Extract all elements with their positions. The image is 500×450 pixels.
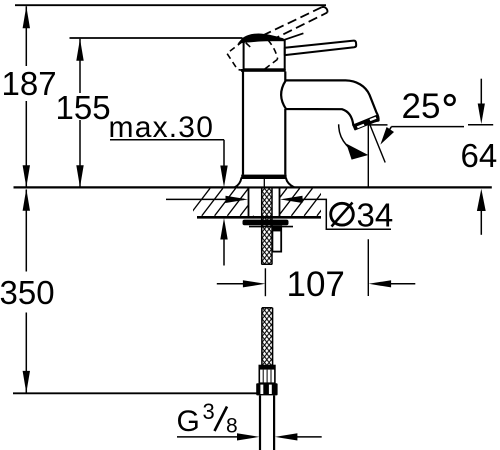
svg-text:3: 3 bbox=[203, 399, 215, 424]
dim 350 arrow down bbox=[23, 371, 30, 393]
dim 155 line bbox=[79, 39, 81, 187]
svg-text:25: 25 bbox=[402, 87, 441, 126]
top reference line bbox=[15, 4, 326, 6]
25 deg short line at tip bbox=[369, 124, 388, 126]
hose nut bbox=[256, 383, 277, 395]
dim 64 upper arrow bbox=[480, 79, 482, 104]
mounting washer bbox=[243, 220, 289, 226]
max.30 arrow up below counter bbox=[220, 218, 227, 240]
lever solid bbox=[285, 41, 356, 56]
handle dashed left flap bbox=[227, 41, 245, 70]
svg-text:107: 107 bbox=[287, 265, 345, 304]
counter hatching bbox=[189, 188, 338, 216]
spout bbox=[281, 80, 378, 125]
base seam centerline bbox=[263, 178, 265, 187]
lever cap blob bbox=[238, 34, 284, 44]
lever raised-position edge stub bbox=[283, 33, 303, 40]
25 deg underline bbox=[391, 126, 464, 128]
lever dashed raised position bbox=[262, 7, 327, 40]
25 deg leader arrow bbox=[385, 127, 392, 138]
dim 107 left arrow bbox=[217, 283, 244, 285]
rotation arc arrowhead bbox=[346, 144, 368, 160]
aerator bbox=[353, 116, 379, 130]
25 deg angled line bbox=[369, 122, 385, 163]
base flare bbox=[235, 178, 295, 187]
braided hose lower bbox=[262, 308, 273, 366]
svg-text:64: 64 bbox=[461, 137, 498, 174]
G3/8 leader left arrow bbox=[177, 436, 240, 438]
dim Ø34 left arrow bbox=[166, 198, 244, 200]
G3/8 right arrow bbox=[275, 433, 298, 440]
max.30 arrow down bbox=[220, 166, 227, 188]
base bar bbox=[241, 175, 286, 178]
svg-text:G: G bbox=[177, 405, 200, 438]
svg-text:350: 350 bbox=[0, 274, 55, 311]
dim 187 arrow up bbox=[23, 6, 30, 28]
svg-text:34: 34 bbox=[357, 196, 394, 233]
dim 187 line bbox=[25, 6, 27, 186]
25 deg vertical extension line bbox=[367, 125, 369, 296]
counter bottom line bbox=[197, 216, 321, 219]
svg-text:155: 155 bbox=[56, 89, 111, 126]
hose collar bbox=[259, 366, 275, 384]
max.30 leader line bbox=[110, 140, 224, 170]
faucet body column bbox=[243, 72, 285, 175]
braided hose upper bbox=[261, 188, 272, 265]
dim 155 arrow up bbox=[76, 39, 83, 61]
tail pipe bbox=[260, 395, 274, 450]
handle inner dashed lines bbox=[246, 40, 278, 70]
dim 187 arrow down bbox=[23, 165, 30, 187]
dim 64 lower arrow bbox=[477, 189, 486, 211]
dim Ø34 right arrow bbox=[280, 196, 303, 203]
dim 155 arrow down bbox=[76, 165, 83, 187]
ref line 155 level bbox=[70, 37, 243, 39]
dim 107 centerline bbox=[264, 268, 266, 296]
svg-text:8: 8 bbox=[226, 415, 238, 438]
svg-text:187: 187 bbox=[2, 65, 57, 102]
dim 107 right arrow bbox=[369, 280, 392, 287]
dim 350 line bbox=[25, 190, 27, 393]
handle body bbox=[244, 40, 285, 69]
bottom reference line bbox=[13, 392, 257, 394]
rotation arc bbox=[339, 124, 367, 155]
label Ø34 bbox=[331, 203, 354, 225]
counter surface line bbox=[14, 186, 492, 188]
shank hole through counter bbox=[248, 189, 280, 216]
dim 350 arrow up bbox=[23, 189, 30, 211]
handle bottom bar bbox=[241, 69, 286, 72]
hose nipple fitting bbox=[272, 226, 281, 251]
